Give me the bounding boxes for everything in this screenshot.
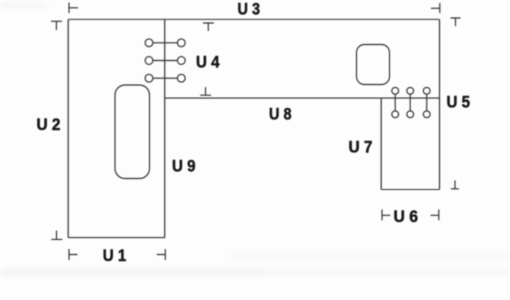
outline bottom-left edge: [68, 237, 165, 239]
hole pair column 1 top circle: [392, 87, 399, 94]
svg-text:U 7: U 7: [349, 139, 373, 157]
dimension U2 top end mark: [51, 21, 62, 30]
scan smudge top-left: [0, 1, 46, 9]
svg-text:U 4: U 4: [196, 53, 220, 71]
dimension U3 left end mark: [69, 3, 78, 14]
dimension U1 right end mark: [157, 249, 166, 260]
hole pair column 3 bottom circle: [423, 111, 430, 118]
dimension U4 top end mark: [203, 23, 214, 31]
right leg left edge: [380, 98, 382, 189]
hole pair column 3 link wire: [426, 94, 428, 111]
hole pair column 3 top circle: [423, 87, 430, 94]
dimension U3 right end mark: [431, 3, 440, 13]
outline right edge: [439, 20, 441, 190]
scan smudge bottom band left: [0, 268, 265, 277]
hole pair row 3 right circle: [177, 74, 185, 82]
dimension U5 top end mark: [451, 18, 461, 26]
outline top edge: [68, 18, 439, 20]
svg-text:U 5: U 5: [447, 93, 471, 111]
hole pair row 1 left circle: [145, 39, 153, 47]
dimension U6 right end mark: [431, 210, 439, 221]
dimension U1 left end mark: [69, 249, 78, 260]
hole pair row 2 left circle: [145, 57, 153, 65]
inner horizontal fold line U8 edge: [165, 97, 440, 99]
hole pair column 1 link wire: [394, 94, 396, 111]
hole pair column 2 link wire: [409, 94, 411, 111]
outline left edge: [67, 20, 69, 238]
hole pair column 1 bottom circle: [392, 111, 399, 118]
right leg bottom edge: [381, 189, 439, 191]
svg-text:U 9: U 9: [172, 158, 196, 176]
hole pair row 2 right circle: [177, 57, 185, 65]
scan smudge mid-right of U1 line: [230, 252, 510, 260]
dimension U5 bottom end mark: [451, 180, 459, 188]
svg-text:U 1: U 1: [103, 247, 127, 265]
hole pair row 3 left circle: [145, 74, 153, 82]
hole pair column 2 bottom circle: [407, 111, 414, 118]
hole pair row 1 right circle: [177, 39, 185, 47]
scan smudge bottom band right: [265, 269, 510, 276]
inner vertical fold line: [164, 20, 166, 238]
hole pair column 2 top circle: [407, 87, 414, 94]
svg-text:U 8: U 8: [269, 106, 292, 124]
hole pair row 1 link wire: [153, 42, 178, 44]
dimension U4 bottom end mark: [200, 87, 211, 95]
svg-text:U 6: U 6: [394, 208, 419, 226]
svg-text:U 2: U 2: [37, 116, 61, 134]
rounded square cutout: [357, 45, 390, 85]
hole pair row 3 link wire: [153, 77, 178, 79]
dimension U6 left end mark: [382, 210, 390, 221]
hole pair row 2 link wire: [153, 60, 178, 62]
slot rounded rectangle: [115, 85, 150, 179]
svg-text:U 3: U 3: [238, 1, 261, 19]
dimension U2 bottom end mark: [51, 231, 62, 240]
